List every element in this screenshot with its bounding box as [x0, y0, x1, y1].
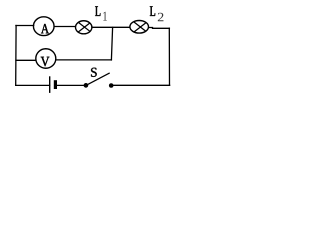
switch S: open blade [86, 73, 110, 86]
ammeter letter A [41, 24, 49, 33]
label L1: subscript 1 [103, 12, 107, 21]
wire: top, lamp L2 to right rail (stepped scan) [149, 27, 170, 30]
wire: top, lamp L1 to lamp L2 through node [92, 26, 130, 28]
lamp L2 (bulb circle) [130, 21, 149, 34]
wire: voltmeter branch, rail to voltmeter [16, 59, 36, 61]
label L2: letter L [150, 6, 155, 15]
wire: left rail [15, 26, 17, 86]
wire: right rail [168, 28, 170, 85]
label L1: letter L [95, 6, 100, 15]
ammeter A (meter circle) [33, 17, 54, 36]
wire: voltmeter branch, voltmeter to node vertical [56, 59, 112, 61]
wire: node vertical, top wire down to voltmeter branch [111, 27, 112, 60]
lamp L2 cross [134, 22, 146, 32]
voltmeter letter V [41, 57, 50, 66]
lamp L1 cross [78, 22, 90, 32]
wire: bottom, rail to battery [16, 84, 50, 86]
wire: top, left corner to ammeter [16, 25, 34, 27]
battery cell: long thin plate [49, 76, 51, 93]
wire: top, ammeter to lamp L1 [54, 26, 75, 28]
wire: bottom, switch right contact to right rail [111, 84, 170, 86]
switch S: right contact dot [109, 83, 114, 88]
label L2: subscript 2 [158, 13, 164, 21]
lamp L1 (bulb circle) [76, 21, 92, 34]
switch S: left contact dot [84, 83, 89, 88]
label S [91, 68, 97, 77]
voltmeter V (meter circle) [36, 49, 56, 69]
wire: bottom, battery to switch left contact [57, 84, 87, 86]
battery cell: short thick plate [54, 80, 57, 89]
